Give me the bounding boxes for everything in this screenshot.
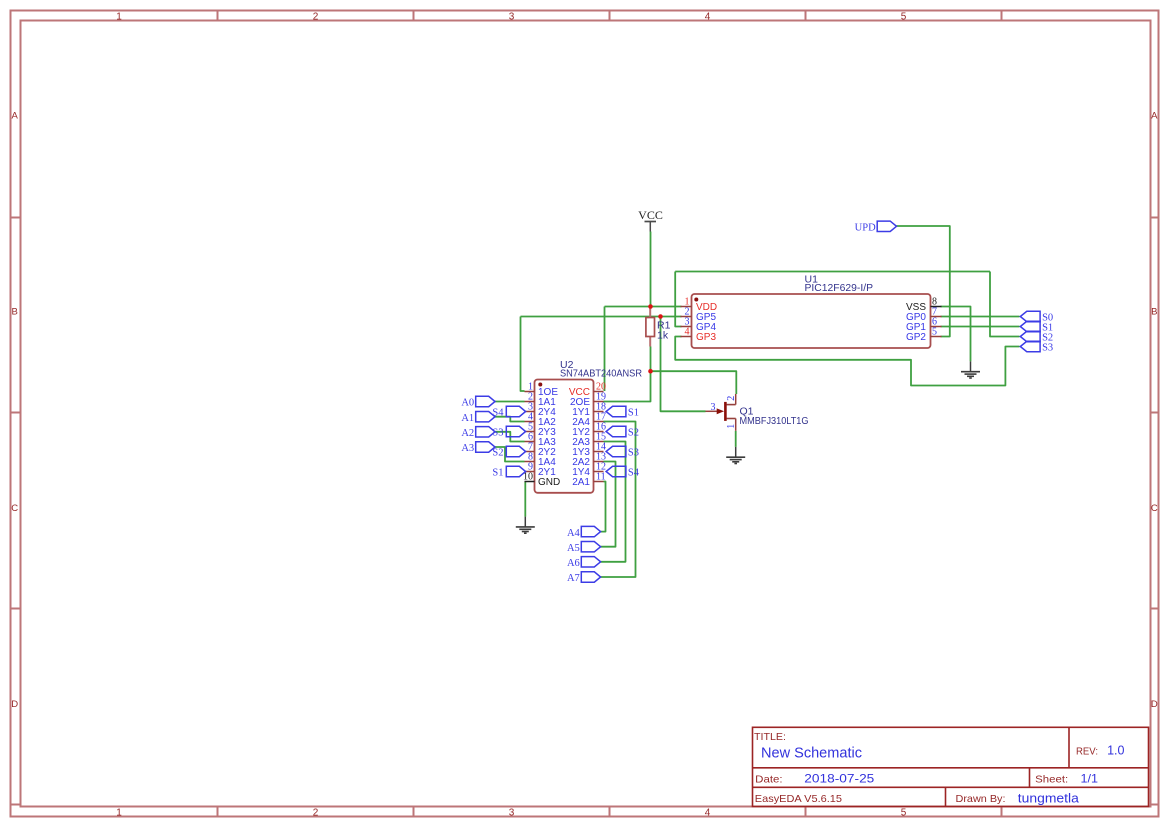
svg-text:4: 4 (705, 12, 711, 23)
svg-text:S3: S3 (1042, 343, 1053, 354)
svg-text:A: A (1151, 111, 1158, 122)
svg-text:3: 3 (711, 402, 716, 413)
svg-text:2018-07-25: 2018-07-25 (804, 772, 874, 786)
svg-text:GND: GND (538, 477, 560, 488)
svg-text:New Schematic: New Schematic (761, 746, 862, 762)
svg-text:1: 1 (726, 424, 737, 429)
svg-text:4: 4 (705, 808, 711, 819)
svg-text:5: 5 (901, 808, 907, 819)
svg-text:Sheet:: Sheet: (1035, 775, 1068, 786)
svg-text:A6: A6 (567, 558, 580, 569)
svg-text:REV:: REV: (1076, 746, 1098, 757)
svg-text:B: B (12, 307, 18, 318)
svg-text:5: 5 (932, 327, 937, 338)
svg-text:tungmetla: tungmetla (1018, 790, 1080, 805)
svg-text:A3: A3 (461, 443, 474, 454)
svg-text:MMBFJ310LT1G: MMBFJ310LT1G (740, 415, 809, 427)
svg-text:S3: S3 (628, 448, 639, 459)
svg-text:A4: A4 (567, 528, 581, 539)
svg-text:D: D (1151, 699, 1158, 710)
svg-text:D: D (11, 699, 18, 710)
svg-text:A: A (12, 111, 19, 122)
svg-text:GP3: GP3 (696, 332, 716, 343)
svg-text:3: 3 (509, 12, 515, 23)
svg-text:S4: S4 (492, 408, 504, 419)
svg-text:2: 2 (726, 396, 737, 401)
svg-text:TITLE:: TITLE: (754, 732, 786, 743)
svg-text:C: C (1151, 503, 1158, 514)
svg-text:A0: A0 (461, 398, 474, 409)
svg-text:S3: S3 (492, 428, 503, 439)
svg-text:2A1: 2A1 (572, 477, 590, 488)
svg-text:4: 4 (685, 327, 690, 338)
svg-text:S2: S2 (628, 428, 639, 439)
svg-text:1: 1 (116, 808, 122, 819)
svg-text:S4: S4 (628, 468, 640, 479)
svg-text:S1: S1 (492, 468, 503, 479)
svg-text:GP2: GP2 (906, 332, 926, 343)
svg-text:A1: A1 (461, 413, 474, 424)
svg-text:B: B (1151, 307, 1157, 318)
svg-text:S2: S2 (492, 448, 503, 459)
svg-text:1.0: 1.0 (1107, 744, 1124, 758)
svg-text:SN74ABT240ANSR: SN74ABT240ANSR (560, 367, 642, 379)
svg-text:EasyEDA V5.6.15: EasyEDA V5.6.15 (755, 794, 842, 805)
svg-text:A7: A7 (567, 573, 580, 584)
svg-text:UPD: UPD (855, 223, 876, 234)
svg-text:1: 1 (116, 12, 122, 23)
svg-text:1/1: 1/1 (1081, 772, 1099, 786)
svg-text:PIC12F629-I/P: PIC12F629-I/P (805, 282, 874, 294)
svg-text:VCC: VCC (638, 208, 663, 222)
svg-text:A5: A5 (567, 543, 580, 554)
svg-text:2: 2 (313, 808, 319, 819)
svg-text:C: C (11, 503, 18, 514)
svg-text:11: 11 (596, 472, 606, 483)
svg-text:Drawn By:: Drawn By: (956, 794, 1006, 805)
svg-text:A2: A2 (461, 428, 474, 439)
svg-text:3: 3 (509, 808, 515, 819)
svg-text:Date:: Date: (755, 775, 782, 786)
svg-text:S1: S1 (628, 408, 639, 419)
svg-text:1k: 1k (657, 330, 669, 342)
svg-text:2: 2 (313, 12, 319, 23)
svg-text:5: 5 (901, 12, 907, 23)
